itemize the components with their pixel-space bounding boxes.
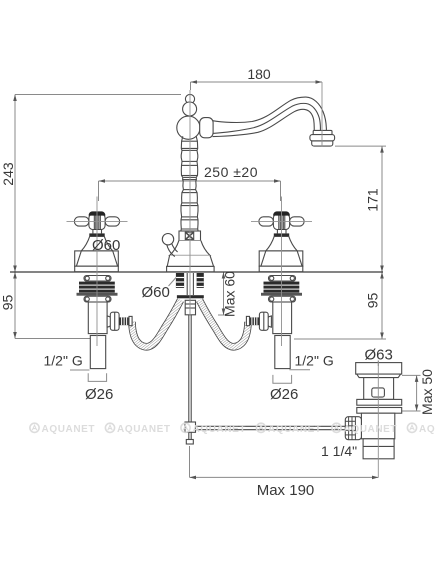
svg-text:Max 190: Max 190 (257, 482, 315, 499)
escutcheon (75, 251, 119, 272)
svg-text:AQUANET: AQUANET (419, 424, 435, 435)
stem flange (dark band) (89, 233, 104, 236)
spout ball joint (177, 116, 200, 139)
svg-text:AQUANET: AQUANET (42, 424, 96, 435)
label Ø26 (left) with bracket (85, 373, 113, 403)
bell base (center) (167, 241, 215, 272)
right elbow fitting (mirrored) (246, 312, 271, 330)
watermark 6 (407, 423, 435, 435)
svg-text:95: 95 (365, 293, 381, 309)
pop-up rod joint block (185, 422, 196, 432)
pop-up rod end cap (186, 440, 193, 445)
drain lever ball (162, 234, 173, 245)
drain tailpipe (363, 439, 394, 459)
valve cone (81, 236, 112, 251)
pop-up horizontal rod (196, 426, 385, 429)
svg-text:AQUANET: AQUANET (344, 424, 398, 435)
spout aerator (310, 130, 335, 146)
drain lever arm (167, 243, 178, 256)
cross handle center boss (89, 214, 105, 230)
overflow hole (372, 388, 385, 397)
collar with screw symbol (179, 231, 201, 241)
right flexible hose (200, 300, 249, 347)
dimension 243 / 95 (left vertical) (0, 95, 181, 339)
svg-text:1/2" G: 1/2" G (295, 353, 334, 369)
dimension 180 (top) (191, 66, 323, 90)
shank hex nut (upper) (84, 276, 111, 282)
label Ø60 (center) with leader (142, 278, 177, 302)
deck line (10, 271, 383, 273)
drain assembly (center x=378.3) (345, 363, 401, 459)
label Ø63 (drain) with leader (365, 347, 393, 367)
svg-text:171: 171 (365, 188, 381, 212)
drain upper body (364, 378, 394, 400)
svg-text:AQUANET: AQUANET (268, 424, 322, 435)
knurled rod nut (345, 417, 361, 440)
svg-text:Max 50: Max 50 (419, 369, 435, 415)
left valve unit (handle + escutcheon + undercounter stack), center x=97 (74, 211, 119, 368)
cross handle right arm (105, 217, 120, 226)
cross handle left arm (74, 217, 89, 226)
coupling nut block (185, 300, 195, 315)
svg-text:1 1/4": 1 1/4" (321, 443, 357, 459)
spout finial top ball (185, 94, 194, 103)
dimension Max 190 (bottom) (190, 446, 379, 499)
watermark 1 (30, 423, 95, 435)
svg-text:Ø60: Ø60 (92, 237, 120, 254)
locknut washer bars (dark) (79, 282, 115, 285)
handle top cap (dark) (89, 211, 106, 215)
right unit axis (281, 197, 283, 347)
right valve unit (259, 211, 304, 368)
watermark 2 (105, 423, 170, 435)
centre axis lines (overlay) (67, 82, 379, 477)
label 1/2" G (right) with leader (289, 353, 333, 370)
spout/body axis (189, 90, 191, 315)
svg-text:1/2" G: 1/2" G (44, 353, 83, 369)
svg-text:Max 60: Max 60 (222, 271, 238, 317)
center body below deck: right stud (197, 273, 204, 288)
svg-text:Ø63: Ø63 (365, 347, 393, 364)
washer 2 (357, 408, 402, 414)
watermark 5 (332, 423, 397, 435)
svg-text:243: 243 (0, 162, 16, 186)
svg-text:Ø26: Ø26 (85, 386, 113, 403)
dimension Max 60 (center, below deck) (218, 271, 238, 317)
drain top flange Ø63 (356, 363, 402, 375)
svg-text:180: 180 (247, 66, 271, 82)
dimension 171 / 95 (right vertical) (294, 146, 386, 339)
center body below deck: left stud (176, 273, 184, 288)
watermark 3 (181, 423, 246, 435)
left unit axis (96, 197, 98, 347)
column (segmented) (181, 136, 198, 231)
spout tube (3 contour curves) (213, 97, 327, 137)
drain axis (377, 361, 379, 478)
svg-text:Ø26: Ø26 (270, 386, 298, 403)
washer 1 (357, 399, 402, 405)
right handle arm axis (251, 220, 312, 222)
boss knurl (94, 214, 100, 230)
spout hub nut (200, 118, 213, 138)
drain lower body (361, 413, 394, 439)
mounting bracket bar (177, 295, 204, 298)
left handle arm axis (67, 220, 128, 222)
watermark row (30, 423, 435, 435)
pop-up vertical rod (189, 315, 191, 440)
svg-text:AQUANET: AQUANET (117, 424, 171, 435)
label 1/2" G (left) with leader (44, 353, 90, 371)
dim-180 right extension (over spout) (321, 82, 323, 146)
shank hex nut (lower) (84, 296, 111, 302)
spout finial middle ball (183, 102, 197, 116)
svg-text:250 ±20: 250 ±20 (204, 164, 258, 180)
dimension Max 50 (drain right) (402, 369, 435, 415)
watermark 4 (256, 423, 321, 435)
pop-up rod guide tube (187, 273, 193, 295)
valve tail 1/2" (90, 336, 105, 369)
dimension 250 ±20 (99, 164, 281, 201)
label Ø26 (right) with bracket (270, 375, 298, 403)
valve body (88, 302, 107, 334)
svg-text:95: 95 (0, 295, 16, 311)
svg-text:AQUANET: AQUANET (193, 424, 247, 435)
svg-text:Ø60: Ø60 (142, 284, 170, 301)
handle stem (93, 230, 102, 234)
left flexible hose (132, 300, 181, 347)
left elbow fitting (hose connection) (107, 312, 132, 330)
wide washer (77, 293, 118, 296)
